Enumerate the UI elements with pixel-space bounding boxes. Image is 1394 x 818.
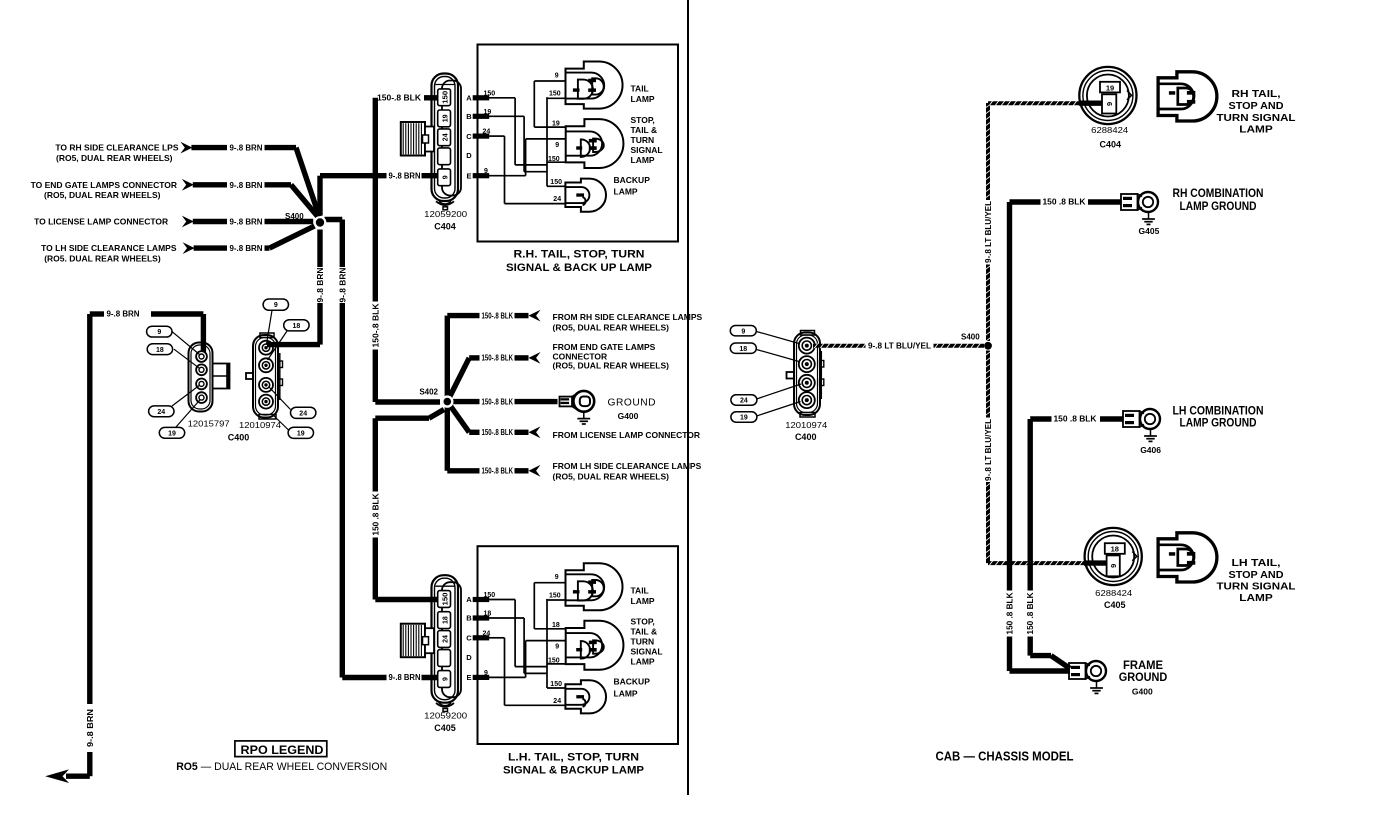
svg-text:12059200: 12059200 [424, 711, 467, 721]
svg-text:9: 9 [555, 72, 559, 79]
terminal ovals (right sheet C400) [730, 326, 756, 336]
svg-text:24: 24 [553, 196, 561, 203]
svg-text:D: D [466, 653, 472, 662]
svg-text:24: 24 [553, 698, 561, 705]
wire 150 .8 BLK to RH combination lamp ground [1007, 202, 1012, 591]
svg-text:24: 24 [442, 635, 449, 643]
svg-text:GROUND: GROUND [1119, 670, 1168, 684]
svg-text:(RO5, DUAL REAR WHEELS): (RO5, DUAL REAR WHEELS) [56, 153, 173, 163]
wire S400 up to C404 pin E (9-.8 BRN) [317, 176, 322, 216]
svg-text:18: 18 [156, 347, 164, 354]
svg-text:BACKUP: BACKUP [614, 677, 651, 687]
svg-text:9: 9 [484, 670, 488, 677]
svg-text:150-.8 BLK: 150-.8 BLK [482, 354, 514, 363]
svg-text:C: C [466, 634, 472, 643]
wire 150 .8 BLK to LH combination lamp ground [1027, 419, 1032, 591]
RPO legend box [235, 741, 327, 757]
svg-text:A: A [466, 94, 472, 103]
svg-text:RH COMBINATION: RH COMBINATION [1173, 186, 1264, 200]
svg-text:150 .8 BLK: 150 .8 BLK [371, 493, 380, 535]
svg-text:LAMP: LAMP [631, 94, 655, 104]
ground G400 ring terminal at S402 [560, 397, 573, 407]
svg-text:B: B [466, 614, 472, 623]
svg-text:G400: G400 [1132, 687, 1153, 697]
wire 150-.8 BLK into C405 pin A [375, 597, 437, 602]
stop/tail/turn bulb RH [566, 119, 624, 168]
svg-text:9: 9 [741, 328, 745, 335]
svg-text:D: D [466, 151, 472, 160]
svg-text:BACKUP: BACKUP [614, 175, 651, 185]
wire riser into S402 [375, 399, 440, 404]
svg-text:19: 19 [168, 430, 176, 437]
svg-text:19: 19 [1106, 83, 1114, 92]
connector 12010974 (C400 right half) [253, 335, 278, 418]
wire S400 right then down (9-.8 BRN riser to C405) [325, 217, 343, 222]
round connector C405 (6288424) [1085, 528, 1142, 585]
connector 12010974 (C400 right sheet) [794, 333, 820, 416]
svg-text:24: 24 [483, 630, 491, 637]
svg-text:S402: S402 [419, 388, 438, 397]
svg-text:TO LH SIDE CLEARANCE LAMPS: TO LH SIDE CLEARANCE LAMPS [41, 243, 177, 253]
round connector C404 (6288424) [1079, 67, 1136, 124]
S402 branch diag up-right [447, 358, 469, 402]
svg-text:C: C [466, 132, 472, 141]
svg-text:150-.8 BLK: 150-.8 BLK [482, 311, 514, 320]
svg-text:9-.8 BRN: 9-.8 BRN [338, 267, 347, 302]
svg-text:R.H. TAIL, STOP, TURN: R.H. TAIL, STOP, TURN [514, 249, 645, 261]
backup lamp bulb RH [565, 179, 606, 212]
connector C404 (12059200) [432, 74, 459, 202]
svg-text:150 .8 BLK: 150 .8 BLK [1054, 415, 1097, 424]
svg-text:24: 24 [740, 398, 748, 405]
svg-text:SIGNAL & BACK UP LAMP: SIGNAL & BACK UP LAMP [506, 262, 652, 274]
connector C405 (12059200) [432, 575, 459, 703]
svg-text:C404: C404 [1100, 140, 1122, 150]
hatched wire to C405 bulb connector [988, 561, 1084, 565]
svg-text:STOP,: STOP, [631, 617, 655, 627]
svg-text:LAMP: LAMP [1239, 124, 1273, 136]
splice S400 dot [314, 216, 327, 229]
svg-text:9-.8 BRN: 9-.8 BRN [389, 171, 421, 180]
svg-text:150-.8 BLK: 150-.8 BLK [371, 303, 380, 347]
svg-text:RPO LEGEND: RPO LEGEND [241, 743, 324, 757]
svg-text:150: 150 [442, 592, 449, 605]
svg-text:(RO5, DUAL REAR WHEELS): (RO5, DUAL REAR WHEELS) [553, 361, 670, 371]
svg-text:A: A [466, 595, 472, 604]
svg-text:CAB — CHASSIS MODEL: CAB — CHASSIS MODEL [936, 749, 1074, 764]
svg-text:L.H. TAIL, STOP, TURN: L.H. TAIL, STOP, TURN [508, 751, 639, 763]
svg-text:TAIL &: TAIL & [631, 125, 658, 135]
svg-text:TAIL: TAIL [631, 585, 649, 595]
svg-text:18: 18 [1111, 545, 1119, 554]
svg-text:LAMP: LAMP [614, 688, 638, 698]
svg-text:FROM LICENSE LAMP CONNECTOR: FROM LICENSE LAMP CONNECTOR [553, 430, 701, 440]
svg-text:B: B [466, 112, 472, 121]
svg-text:SIGNAL: SIGNAL [631, 145, 663, 155]
wire 150-.8 BLK from S402 down to C405 pin A [373, 418, 378, 491]
svg-text:STOP,: STOP, [631, 115, 655, 125]
svg-text:9: 9 [555, 142, 559, 149]
svg-text:(RO5, DUAL REAR WHEELS): (RO5, DUAL REAR WHEELS) [553, 472, 670, 482]
wire diagonal row2 to S400 [291, 185, 319, 218]
svg-text:LAMP: LAMP [631, 596, 655, 606]
S402 branch down [445, 402, 450, 471]
svg-text:150: 150 [549, 91, 561, 98]
svg-text:9: 9 [1105, 102, 1114, 106]
wire 150-.8 BLK from C404 pin A down to S402 [373, 98, 378, 302]
svg-text:9-.8 BRN: 9-.8 BRN [230, 244, 263, 253]
svg-text:150-.8 BLK: 150-.8 BLK [482, 397, 514, 406]
svg-text:9-.8 BRN: 9-.8 BRN [389, 673, 421, 682]
svg-text:9-.8 BRN: 9-.8 BRN [230, 181, 263, 190]
svg-text:9: 9 [1109, 564, 1118, 568]
hatched wire to C404 bulb connector [988, 101, 1079, 105]
svg-text:9-.8 BRN: 9-.8 BRN [316, 267, 325, 302]
svg-text:9: 9 [442, 175, 449, 179]
svg-text:150-.8 BLK: 150-.8 BLK [377, 94, 421, 103]
svg-text:9-.8 LT BLU/YEL: 9-.8 LT BLU/YEL [984, 201, 993, 263]
backup lamp bulb LH [565, 680, 606, 713]
svg-text:S400: S400 [285, 212, 304, 221]
arrow to lower-left continuation [66, 774, 90, 779]
svg-text:C405: C405 [434, 723, 456, 733]
svg-text:9-.8 LT BLU/YEL: 9-.8 LT BLU/YEL [984, 419, 993, 481]
RH tail/stop/turn bulb symbol [1158, 72, 1217, 121]
svg-text:150-.8 BLK: 150-.8 BLK [482, 428, 514, 437]
svg-text:LAMP: LAMP [1239, 592, 1273, 604]
svg-text:LAMP: LAMP [631, 657, 655, 667]
svg-text:12059200: 12059200 [424, 209, 467, 219]
svg-text:18: 18 [552, 622, 560, 629]
svg-text:(RO5. DUAL REAR WHEELS): (RO5. DUAL REAR WHEELS) [44, 253, 161, 263]
svg-text:RO5 — DUAL REAR WHEEL CONVERSI: RO5 — DUAL REAR WHEEL CONVERSION [176, 761, 387, 773]
svg-text:TO END GATE LAMPS CONNECTOR: TO END GATE LAMPS CONNECTOR [31, 180, 177, 190]
svg-text:TURN: TURN [631, 135, 655, 145]
svg-text:GROUND: GROUND [608, 397, 657, 408]
svg-text:9: 9 [484, 168, 488, 175]
svg-text:TO RH SIDE CLEARANCE LPS: TO RH SIDE CLEARANCE LPS [55, 143, 178, 153]
svg-text:19: 19 [484, 109, 492, 116]
svg-text:9-.8 BRN: 9-.8 BRN [230, 218, 263, 227]
svg-text:18: 18 [739, 346, 747, 353]
terminal ovals for 12015797 [147, 326, 172, 337]
svg-text:G400: G400 [618, 411, 639, 421]
wire diagonal row4 to S400 [270, 226, 315, 248]
svg-text:150: 150 [548, 156, 560, 163]
svg-text:C400: C400 [795, 432, 817, 442]
svg-text:STOP AND: STOP AND [1229, 569, 1284, 581]
svg-text:SIGNAL: SIGNAL [631, 647, 663, 657]
svg-text:9: 9 [555, 644, 559, 651]
svg-text:LH TAIL,: LH TAIL, [1232, 557, 1281, 569]
S402 branch to ground G400 [447, 399, 479, 404]
svg-text:LAMP: LAMP [631, 155, 655, 165]
svg-text:6288424: 6288424 [1091, 125, 1128, 135]
svg-text:TO LICENSE LAMP CONNECTOR: TO LICENSE LAMP CONNECTOR [34, 217, 168, 227]
svg-text:LAMP: LAMP [614, 187, 638, 197]
svg-text:C404: C404 [434, 222, 456, 232]
svg-text:G406: G406 [1140, 445, 1161, 455]
tail lamp bulb LH [566, 563, 623, 610]
svg-text:RH TAIL,: RH TAIL, [1232, 88, 1281, 100]
svg-text:150: 150 [484, 90, 496, 97]
svg-text:G405: G405 [1139, 226, 1160, 236]
connector 12015797 (C400 left half) [189, 343, 213, 412]
svg-text:(RO5, DUAL REAR WHEELS): (RO5, DUAL REAR WHEELS) [553, 322, 670, 332]
svg-text:9-.8 BRN: 9-.8 BRN [230, 144, 263, 153]
ring terminal G405 [1121, 194, 1138, 210]
svg-text:12010974: 12010974 [785, 420, 827, 430]
svg-text:E: E [466, 673, 471, 682]
ring terminal G406 [1123, 411, 1140, 427]
svg-text:150: 150 [550, 179, 562, 186]
lamp box R.H. internal wiring [489, 97, 515, 99]
wire diagonal row1 to S400 [296, 148, 319, 217]
splice S402 dot [441, 395, 453, 407]
svg-text:19: 19 [297, 430, 305, 437]
ring terminal G400 frame ground [1069, 663, 1086, 679]
svg-text:FROM RH SIDE CLEARANCE LAMPS: FROM RH SIDE CLEARANCE LAMPS [553, 312, 703, 322]
svg-text:150: 150 [548, 658, 560, 665]
svg-text:TAIL: TAIL [631, 84, 649, 94]
svg-text:C400: C400 [228, 433, 250, 443]
svg-text:9: 9 [274, 302, 278, 309]
svg-text:9: 9 [157, 329, 161, 336]
svg-text:TURN SIGNAL: TURN SIGNAL [1217, 112, 1297, 124]
svg-text:TURN: TURN [631, 637, 655, 647]
svg-text:9-.8 BRN: 9-.8 BRN [107, 310, 140, 319]
lamp box L.H. internal wiring [489, 599, 515, 601]
svg-text:TURN SIGNAL: TURN SIGNAL [1217, 580, 1297, 592]
svg-text:6288424: 6288424 [1095, 588, 1132, 598]
svg-text:18: 18 [293, 323, 301, 330]
tail lamp bulb RH [566, 62, 623, 109]
stop/tail/turn bulb LH [566, 621, 624, 670]
svg-text:150: 150 [550, 681, 562, 688]
wire S400 down to C400 (9-.8 BRN) [317, 230, 322, 268]
svg-text:FROM LH SIDE CLEARANCE LAMPS: FROM LH SIDE CLEARANCE LAMPS [553, 461, 702, 471]
svg-text:E: E [466, 171, 471, 180]
svg-text:SIGNAL & BACKUP LAMP: SIGNAL & BACKUP LAMP [503, 765, 644, 777]
svg-text:9-.8 BRN: 9-.8 BRN [86, 709, 95, 747]
svg-text:150-.8 BLK: 150-.8 BLK [482, 467, 514, 476]
svg-text:150 .8 BLK: 150 .8 BLK [1006, 592, 1015, 634]
lamp box R.H. [478, 45, 679, 242]
wire 9-.8 BRN branch to 12015797 and down-left [90, 311, 104, 316]
S402 branch diag down-right [447, 402, 469, 433]
svg-text:24: 24 [157, 409, 165, 416]
svg-text:12015797: 12015797 [188, 419, 230, 429]
svg-text:150: 150 [549, 592, 561, 599]
vertical divider line [687, 0, 689, 795]
svg-text:LAMP GROUND: LAMP GROUND [1180, 416, 1257, 430]
svg-text:S400: S400 [961, 333, 980, 342]
svg-text:150: 150 [442, 91, 449, 104]
svg-text:19: 19 [740, 415, 748, 422]
svg-text:24: 24 [483, 129, 491, 136]
svg-text:18: 18 [484, 611, 492, 618]
svg-text:24: 24 [442, 133, 449, 141]
hatched wire 9-.8 LT BLU/YEL from C400 to S400 [813, 344, 866, 348]
svg-text:TAIL &: TAIL & [631, 627, 658, 637]
svg-text:9: 9 [555, 574, 559, 581]
svg-text:(RO5, DUAL REAR WHEELS): (RO5, DUAL REAR WHEELS) [44, 190, 161, 200]
svg-text:18: 18 [442, 616, 449, 624]
svg-text:9-.8 LT BLU/YEL: 9-.8 LT BLU/YEL [868, 342, 931, 351]
S402 branch up [445, 316, 450, 402]
svg-text:24: 24 [299, 410, 307, 417]
svg-text:12010974: 12010974 [239, 420, 281, 430]
terminal ovals for 12010974 [263, 299, 288, 310]
frame ground wires [1010, 668, 1071, 673]
svg-text:150 .8 BLK: 150 .8 BLK [1026, 592, 1035, 634]
svg-text:150 .8 BLK: 150 .8 BLK [1043, 198, 1086, 207]
lamp box L.H. [478, 546, 679, 744]
wire 9-.8 BRN into C405 pin E [342, 675, 386, 680]
svg-text:LAMP GROUND: LAMP GROUND [1180, 199, 1257, 213]
wire S402 to lower riser [375, 416, 429, 421]
svg-text:STOP AND: STOP AND [1229, 100, 1284, 112]
svg-text:C405: C405 [1104, 600, 1126, 610]
svg-text:19: 19 [442, 114, 449, 122]
svg-text:19: 19 [552, 121, 560, 128]
svg-text:150: 150 [484, 592, 496, 599]
hatched riser BLU/YEL [986, 103, 990, 200]
LH tail/stop/turn bulb symbol [1158, 533, 1217, 582]
svg-text:9: 9 [442, 677, 449, 681]
